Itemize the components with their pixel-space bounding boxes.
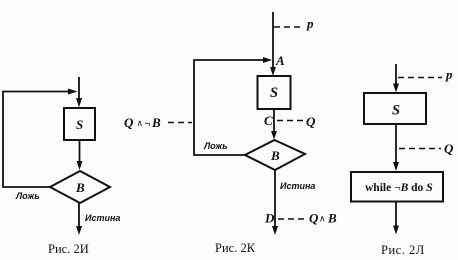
svg-text:Q: Q bbox=[124, 115, 134, 130]
box S1 bbox=[64, 108, 95, 140]
arrowhead into S box 1 bbox=[76, 98, 82, 108]
arrowhead into diamond B2 bbox=[271, 131, 277, 140]
svg-text:C: C bbox=[264, 113, 273, 128]
wire: exit down from diamond B1 bbox=[78, 203, 80, 228]
arrowhead into diamond B1 bbox=[77, 161, 83, 170]
svg-text:Q: Q bbox=[309, 211, 319, 226]
svg-text:Рис. 2Л: Рис. 2Л bbox=[381, 243, 425, 257]
svg-text:D: D bbox=[264, 211, 275, 226]
arrowhead exit 3 bbox=[393, 226, 399, 235]
svg-text:S: S bbox=[76, 117, 83, 132]
svg-text:¬: ¬ bbox=[145, 119, 151, 130]
svg-text:Ложь: Ложь bbox=[203, 141, 228, 151]
node invariant dashed lead bbox=[168, 122, 192, 124]
node D dashed lead bbox=[278, 218, 304, 220]
svg-text:p: p bbox=[306, 16, 314, 31]
node P dashed lead 3 bbox=[398, 77, 442, 79]
diamond B2 bbox=[245, 140, 305, 170]
wire: exit from while box bbox=[395, 202, 397, 228]
wire: loop-back from diamond 2 left vertex bbox=[194, 60, 265, 155]
node P dashed lead bbox=[274, 26, 304, 28]
node C dashed lead bbox=[277, 120, 303, 122]
arrowhead exit 1 bbox=[76, 226, 82, 235]
svg-text:B: B bbox=[151, 115, 161, 130]
box while bbox=[351, 172, 443, 202]
arrowhead loop joins entry line bbox=[68, 89, 78, 95]
svg-text:∧: ∧ bbox=[137, 118, 144, 128]
box S3 bbox=[364, 93, 426, 124]
arrowhead loop 2 into node A bbox=[263, 57, 272, 63]
box S2 bbox=[258, 76, 291, 109]
wire: entry line top 3 bbox=[395, 64, 397, 86]
svg-text:p: p bbox=[445, 67, 453, 82]
arrowhead into S box 3 bbox=[393, 84, 399, 93]
arrowhead into S box 2 bbox=[270, 67, 276, 76]
node Q dashed lead 3 bbox=[399, 148, 441, 150]
svg-text:B: B bbox=[75, 180, 85, 195]
svg-text:Истина: Истина bbox=[85, 213, 120, 223]
svg-text:while ¬B do S: while ¬B do S bbox=[365, 180, 433, 194]
svg-text:Истина: Истина bbox=[280, 181, 315, 191]
diamond B1 bbox=[50, 171, 110, 203]
arrowhead into while box bbox=[393, 162, 399, 171]
wire: exit down from diamond B2 bbox=[274, 170, 276, 228]
svg-text:Рис. 2И: Рис. 2И bbox=[48, 242, 89, 256]
svg-text:S: S bbox=[270, 85, 278, 101]
svg-text:B: B bbox=[270, 148, 280, 163]
svg-text:A: A bbox=[275, 53, 285, 68]
wire: entry line into S box bbox=[78, 77, 80, 101]
svg-text:∧: ∧ bbox=[319, 214, 326, 224]
svg-text:Ложь: Ложь bbox=[15, 191, 40, 201]
wire: S1 to diamond B1 bbox=[79, 140, 81, 163]
wire: loop-back left side (from diamond left vertex up and over) bbox=[3, 92, 70, 188]
arrowhead exit 2 bbox=[272, 226, 278, 235]
svg-text:B: B bbox=[327, 211, 337, 226]
wire: entry line top bbox=[272, 12, 274, 71]
svg-text:S: S bbox=[392, 103, 400, 119]
svg-text:Q: Q bbox=[306, 114, 316, 129]
wire: S2 to diamond B2 bbox=[273, 109, 275, 133]
svg-text:Рис. 2К: Рис. 2К bbox=[215, 241, 256, 255]
wire: S3 to while box bbox=[395, 124, 397, 164]
svg-text:Q: Q bbox=[444, 141, 454, 156]
